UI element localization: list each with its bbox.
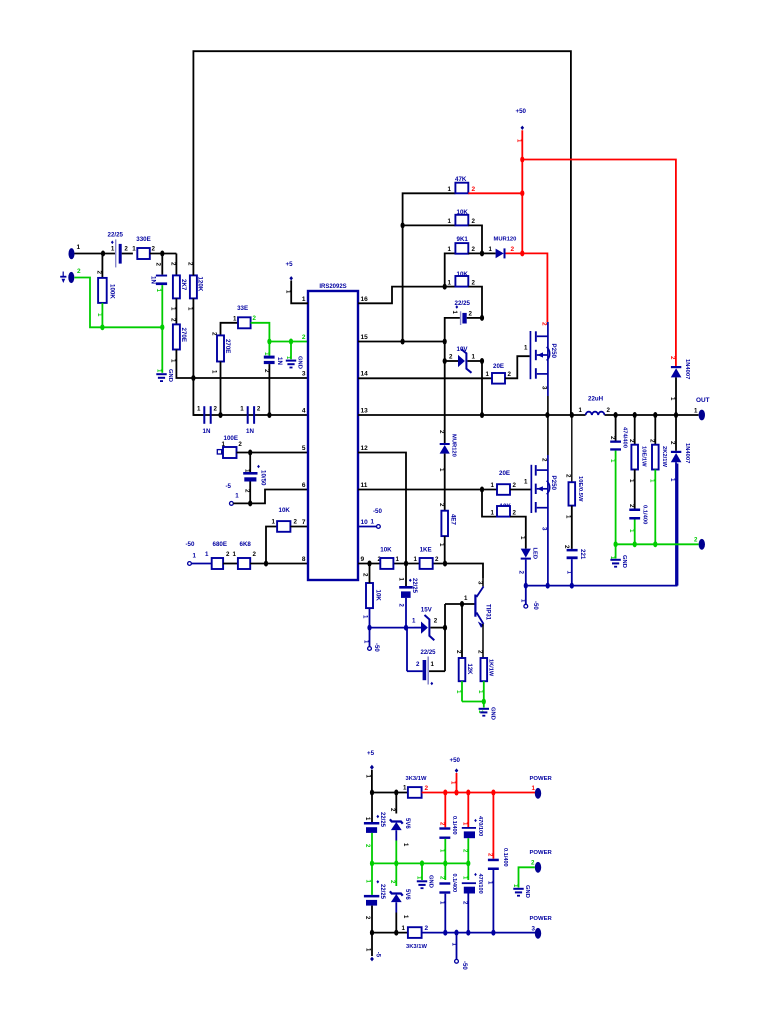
svg-text:2: 2	[294, 519, 298, 526]
capacitor 1N b	[240, 406, 261, 436]
svg-text:2: 2	[96, 271, 103, 275]
svg-text:5V6: 5V6	[404, 889, 410, 900]
svg-text:16: 16	[361, 296, 369, 303]
svg-text:10: 10	[361, 519, 369, 526]
resistor 270E pin2	[211, 332, 232, 415]
transistor P250 low-side	[524, 415, 557, 586]
terminal +50 top	[516, 108, 527, 160]
wire pin8 to 10K pin7	[266, 527, 277, 564]
inductor 22uH	[579, 396, 611, 416]
terminal -5 psu	[365, 933, 381, 962]
svg-text:2: 2	[238, 441, 242, 448]
node psu -50 rail e2	[454, 930, 458, 936]
node -50 local b	[404, 625, 408, 631]
svg-text:2: 2	[513, 510, 517, 517]
svg-text:2: 2	[152, 246, 156, 253]
svg-text:2: 2	[170, 318, 177, 322]
svg-text:GND: GND	[621, 555, 627, 568]
svg-text:2: 2	[669, 441, 676, 445]
connector IN pin 1	[69, 244, 81, 259]
svg-text:P250: P250	[550, 344, 557, 359]
resistor 3K3/1W upper	[403, 776, 535, 798]
svg-text:33E: 33E	[237, 305, 248, 312]
node pin4 a	[218, 412, 222, 418]
wire feedback loop from 120K to switch node	[193, 51, 571, 415]
svg-text:2: 2	[518, 571, 525, 575]
svg-text:2: 2	[513, 482, 517, 489]
terminal -50 below 10K	[363, 628, 379, 653]
terminal -50 bias	[186, 541, 212, 565]
svg-text:1: 1	[669, 397, 676, 401]
wire COM rail down to pin4 row	[193, 378, 203, 415]
wire pin16 net	[358, 287, 445, 304]
wire vbe gnd rail	[462, 701, 484, 703]
svg-text:10E/0.5W: 10E/0.5W	[577, 476, 583, 502]
svg-text:1N: 1N	[203, 428, 211, 435]
wire pin9 row	[358, 564, 483, 579]
svg-text:1N: 1N	[276, 357, 283, 365]
resistor 10E/0.5W snubber	[565, 415, 583, 549]
svg-text:2: 2	[508, 371, 512, 378]
resistor 10K ladder a	[403, 209, 482, 253]
connector POWER pin3	[530, 916, 553, 939]
resistor 10E/1W zobel	[628, 415, 647, 509]
resistor 4E7	[438, 503, 457, 564]
wire psu ground rail	[372, 862, 468, 864]
svg-text:2: 2	[124, 246, 128, 253]
node +50 MUR120	[520, 250, 524, 256]
svg-text:2: 2	[425, 925, 429, 932]
svg-text:3: 3	[302, 371, 306, 378]
node switch/out a	[480, 412, 484, 418]
diode MUR120 vcc bootstrap charge	[438, 430, 456, 511]
node zener/vs vertical a	[443, 358, 447, 364]
svg-text:2: 2	[257, 406, 261, 413]
node psu -50 rail e1	[443, 930, 447, 936]
svg-text:2: 2	[416, 661, 420, 668]
svg-text:2: 2	[302, 334, 306, 341]
node psu -50 rail e3	[466, 930, 470, 936]
terminal +50 psu	[450, 757, 461, 793]
capacitor 22/25 vbe	[407, 628, 445, 686]
capacitor 22/25 psu lower	[364, 863, 385, 932]
node vbe gnd	[482, 699, 486, 705]
terminal -5	[226, 483, 251, 505]
svg-text:1N4007: 1N4007	[684, 443, 690, 463]
svg-text:1: 1	[524, 345, 528, 352]
node bootstrap cap right	[480, 315, 484, 321]
capacitor 0.1/400 psu upper	[439, 793, 458, 864]
capacitor 22/25 vcc	[398, 564, 417, 628]
svg-text:1: 1	[669, 478, 676, 482]
resistor 1KE	[414, 547, 440, 569]
node -5 junction	[248, 500, 252, 506]
svg-text:1: 1	[155, 289, 162, 293]
capacitor 1N a	[197, 406, 218, 436]
wire to GND	[161, 327, 163, 373]
svg-text:1: 1	[486, 371, 490, 378]
diode LED	[518, 536, 538, 586]
svg-text:2: 2	[438, 503, 445, 507]
svg-text:2: 2	[472, 218, 476, 225]
svg-text:4E7: 4E7	[450, 514, 457, 526]
svg-text:7: 7	[302, 519, 306, 526]
svg-text:1: 1	[362, 615, 369, 619]
svg-text:2: 2	[455, 650, 462, 654]
svg-text:680E: 680E	[213, 541, 227, 548]
svg-text:2: 2	[214, 406, 218, 413]
capacitor 22/25 bootstrap	[445, 300, 482, 444]
svg-text:GND: GND	[167, 369, 173, 382]
svg-text:20E: 20E	[493, 363, 504, 370]
terminal -50 below LED	[520, 586, 539, 611]
svg-text:2: 2	[435, 556, 439, 563]
capacitor 0.1/400 zobel	[628, 504, 648, 544]
svg-text:270E: 270E	[180, 328, 187, 342]
svg-text:1: 1	[448, 280, 452, 287]
svg-text:221: 221	[579, 549, 586, 560]
svg-text:2: 2	[628, 439, 635, 443]
transistor P250 high-side	[524, 322, 557, 415]
node pin15 a	[401, 339, 405, 345]
ground GND input	[156, 369, 174, 382]
svg-text:270E: 270E	[224, 339, 231, 353]
svg-text:GND: GND	[297, 356, 303, 369]
resistor 2K2/1W bleeder	[648, 415, 667, 544]
svg-text:-50: -50	[373, 508, 383, 515]
node out gnd b	[633, 541, 637, 547]
svg-text:2: 2	[541, 322, 548, 326]
capacitor 221 snubber	[563, 545, 586, 586]
diode 1N4007 upper clamp	[669, 356, 690, 415]
node psu +50 rail b2	[454, 790, 458, 796]
svg-text:1: 1	[628, 529, 635, 533]
svg-text:1: 1	[205, 551, 209, 558]
svg-text:1: 1	[132, 246, 136, 253]
svg-text:GND: GND	[490, 707, 496, 720]
ground GND tip31	[477, 702, 496, 720]
svg-text:22/25: 22/25	[421, 650, 437, 656]
node pin9 c	[443, 561, 447, 567]
svg-text:330E: 330E	[136, 236, 150, 243]
zener 5V6 upper	[389, 793, 410, 864]
svg-text:22/25: 22/25	[379, 812, 385, 828]
svg-text:22uH: 22uH	[588, 396, 604, 403]
svg-text:1: 1	[565, 515, 572, 519]
svg-text:2: 2	[541, 458, 548, 462]
node out gnd c	[653, 541, 657, 547]
wire pin2 green net	[269, 341, 308, 343]
svg-text:22/25: 22/25	[108, 232, 124, 239]
svg-text:12K: 12K	[466, 664, 472, 676]
svg-text:1: 1	[455, 690, 462, 694]
svg-text:+50: +50	[516, 108, 527, 115]
svg-text:1: 1	[448, 218, 452, 225]
capacitor 22/25 input coupling	[108, 232, 133, 268]
svg-text:2: 2	[565, 474, 572, 478]
node green input gnd 1	[100, 324, 104, 330]
resistor 10K pin9	[378, 547, 400, 569]
svg-text:3: 3	[532, 926, 536, 933]
connector OUT pin1	[694, 397, 710, 420]
chassis ground mark at input pin 2	[60, 272, 66, 284]
svg-text:6K8: 6K8	[240, 541, 252, 548]
node psu +50 rail b3	[466, 790, 470, 796]
node switch/out e	[633, 412, 637, 418]
svg-text:1: 1	[396, 556, 400, 563]
svg-text:MUR120: MUR120	[494, 237, 517, 243]
node pin9 b	[404, 561, 408, 567]
svg-text:1: 1	[412, 618, 416, 625]
resistor 3K3/1W lower	[402, 925, 536, 950]
svg-text:2: 2	[155, 263, 162, 267]
resistor 120K feedback	[187, 262, 204, 378]
svg-text:0.1/400: 0.1/400	[502, 848, 508, 867]
svg-text:1: 1	[532, 785, 536, 792]
wire psu -50 bottom rail black	[372, 932, 408, 934]
diode MUR120 bootstrap	[482, 237, 523, 259]
wire VS chain down to switch node	[481, 361, 483, 415]
svg-text:-5: -5	[226, 483, 232, 490]
svg-text:2: 2	[449, 354, 453, 361]
node psu a2	[394, 790, 398, 796]
terminal -50 psu	[450, 933, 467, 971]
svg-text:1: 1	[233, 551, 237, 558]
svg-text:1K/1W: 1K/1W	[487, 659, 493, 677]
node base 12K junction	[460, 601, 464, 607]
svg-text:-5: -5	[375, 952, 381, 958]
node 9K1 output	[480, 250, 484, 256]
connector OUT pin2	[694, 537, 705, 550]
svg-text:9: 9	[361, 556, 365, 563]
wire output ground rail	[616, 543, 699, 545]
node switch/out b	[545, 412, 549, 418]
node +50 branch	[520, 157, 524, 163]
svg-text:1: 1	[233, 316, 237, 323]
svg-text:+5: +5	[286, 261, 294, 268]
svg-text:10E/1W: 10E/1W	[641, 446, 647, 467]
ground GND psu power2	[512, 884, 530, 898]
svg-text:470/100: 470/100	[477, 874, 483, 894]
node -50 rail snubber	[570, 583, 574, 589]
svg-text:2: 2	[694, 537, 698, 544]
wire base net vertical	[445, 604, 475, 671]
svg-text:2: 2	[469, 311, 473, 318]
svg-text:2: 2	[187, 262, 194, 266]
svg-text:22/25: 22/25	[411, 578, 417, 594]
svg-text:POWER: POWER	[530, 850, 553, 856]
wire input pin1 to coupling cap	[74, 253, 115, 255]
svg-text:0.1/400: 0.1/400	[642, 505, 648, 524]
connector POWER pin2	[519, 850, 553, 888]
svg-text:2K7: 2K7	[180, 279, 187, 291]
svg-text:6: 6	[302, 482, 306, 489]
wire pin15 net	[358, 341, 445, 343]
node psu +50 rail b1	[443, 790, 447, 796]
node pin8 junction	[264, 561, 268, 567]
terminal -50 pin10	[358, 508, 383, 528]
wire pin12 to vcc node	[358, 453, 406, 564]
svg-text:-50: -50	[373, 643, 379, 652]
svg-text:11: 11	[361, 482, 368, 489]
zener 10V	[445, 346, 482, 373]
svg-text:1: 1	[302, 296, 306, 303]
capacitor 22/25 psu upper	[364, 793, 385, 864]
svg-text:2: 2	[253, 315, 257, 322]
capacitor 1N input filter	[149, 254, 167, 328]
svg-text:2: 2	[226, 551, 230, 558]
wire -50 rail	[526, 464, 678, 586]
svg-text:470/100: 470/100	[477, 816, 483, 836]
svg-text:1: 1	[263, 352, 270, 356]
wire pin4 row	[193, 414, 308, 416]
svg-text:1N4007: 1N4007	[684, 359, 690, 379]
svg-text:1: 1	[464, 595, 468, 602]
terminal +5 at pin1	[285, 261, 309, 303]
node 330E output	[160, 251, 164, 257]
svg-text:9K1: 9K1	[457, 236, 469, 243]
zener 5V6 lower	[389, 863, 410, 932]
node +50 47K	[520, 190, 524, 196]
svg-text:-50: -50	[186, 541, 196, 548]
svg-text:3K3/1W: 3K3/1W	[406, 776, 427, 782]
svg-text:2: 2	[563, 545, 570, 549]
capacitor 474/400 output zobel	[609, 415, 628, 544]
svg-text:0.1/400: 0.1/400	[451, 874, 457, 893]
svg-text:1: 1	[472, 354, 476, 361]
svg-text:1: 1	[448, 246, 452, 253]
svg-text:2: 2	[170, 262, 177, 266]
resistor 10K vcc lower	[362, 564, 382, 628]
svg-text:2: 2	[253, 551, 257, 558]
IC pin numbers left	[302, 296, 306, 563]
svg-text:1: 1	[489, 246, 493, 253]
svg-text:1: 1	[193, 553, 197, 560]
svg-text:2: 2	[648, 439, 655, 443]
svg-text:1: 1	[694, 408, 698, 415]
svg-text:1N: 1N	[246, 428, 254, 435]
wire -50 local net	[370, 627, 416, 629]
svg-text:1: 1	[648, 479, 655, 483]
node switch/out f	[653, 412, 657, 418]
svg-text:+50: +50	[450, 757, 461, 764]
svg-text:1: 1	[77, 244, 81, 251]
svg-text:1: 1	[491, 482, 495, 489]
capacitor 10/50	[243, 453, 266, 504]
svg-text:+5: +5	[367, 750, 375, 757]
svg-text:474/400: 474/400	[622, 427, 628, 448]
svg-text:3: 3	[541, 386, 548, 390]
svg-text:5: 5	[302, 445, 306, 452]
resistor 2K7	[170, 254, 187, 325]
transistor TIP31	[464, 579, 491, 658]
wire +50 to output diode	[522, 160, 676, 367]
wire psu +5 rail	[372, 792, 408, 794]
capacitor 470/100 psu upper	[462, 793, 483, 864]
node pin2 net b	[289, 339, 293, 345]
svg-text:100K: 100K	[109, 284, 116, 299]
svg-text:0.1/400: 0.1/400	[451, 816, 457, 835]
resistor 10K low gate pulldown	[482, 490, 526, 549]
node switch/out c	[570, 412, 574, 418]
svg-text:2K2/1W: 2K2/1W	[661, 446, 667, 467]
node psu a1	[370, 790, 374, 796]
wire pin11 to gate resistor low	[358, 489, 497, 491]
svg-text:2: 2	[531, 860, 535, 867]
svg-text:2: 2	[77, 268, 81, 275]
resistor 270E input divider	[170, 324, 309, 378]
resistor 6K8	[233, 541, 309, 569]
wire input ground net green	[74, 278, 162, 328]
capacitor 470/100 psu lower	[462, 863, 483, 932]
svg-text:13: 13	[361, 408, 369, 415]
svg-text:2: 2	[628, 504, 635, 508]
svg-text:1: 1	[579, 407, 583, 414]
node out gnd a	[614, 541, 618, 547]
node psu +50 rail b4	[491, 790, 495, 796]
svg-text:1: 1	[448, 186, 452, 193]
svg-text:MUR120: MUR120	[450, 434, 456, 457]
svg-text:15V: 15V	[421, 607, 433, 614]
svg-text:2: 2	[477, 650, 484, 654]
svg-text:1: 1	[371, 519, 375, 526]
resistor 33E	[221, 305, 270, 342]
svg-text:1: 1	[170, 359, 177, 363]
svg-text:POWER: POWER	[530, 916, 553, 922]
svg-text:1: 1	[431, 661, 435, 668]
svg-text:IRS2092S: IRS2092S	[319, 284, 346, 290]
capacitor 0.1/400 psu lower	[439, 863, 458, 932]
svg-text:20E: 20E	[499, 470, 510, 477]
svg-text:3: 3	[541, 527, 548, 531]
node pin11 junction	[480, 487, 484, 493]
svg-text:22/25: 22/25	[379, 884, 385, 900]
svg-text:GND: GND	[428, 875, 434, 888]
svg-text:1: 1	[524, 479, 528, 486]
svg-text:1: 1	[519, 536, 526, 540]
svg-text:GND: GND	[524, 885, 530, 898]
wire switch node pin13	[358, 414, 699, 416]
resistor 20E high gate	[486, 356, 530, 383]
svg-text:LED: LED	[531, 548, 537, 560]
resistor 47K	[403, 176, 523, 342]
svg-text:12: 12	[361, 445, 369, 452]
node psu d2	[394, 930, 398, 936]
node zener/vs vertical b	[480, 358, 484, 364]
svg-text:120K: 120K	[197, 277, 204, 292]
resistor 680E	[205, 541, 238, 569]
resistor 10K pin7	[272, 507, 309, 532]
node psu gnd rail c3	[420, 860, 424, 866]
resistor 1K/1W	[477, 658, 494, 702]
svg-text:3K3/1W: 3K3/1W	[406, 944, 427, 950]
svg-text:1: 1	[197, 406, 201, 413]
wire pin14 to gate resistor	[358, 377, 492, 379]
node 15V zener base net	[443, 625, 447, 631]
svg-text:1: 1	[403, 785, 407, 792]
svg-text:1: 1	[211, 370, 218, 374]
svg-text:2: 2	[438, 430, 445, 434]
node psu gnd rail c5	[466, 860, 470, 866]
svg-text:1: 1	[235, 493, 239, 500]
node -50 rail LED	[524, 583, 528, 589]
resistor 12K	[455, 604, 472, 702]
node COM rail / 120K / pin4 branch	[191, 375, 195, 381]
svg-text:1: 1	[272, 519, 276, 526]
svg-text:POWER: POWER	[530, 776, 553, 782]
svg-text:1: 1	[414, 556, 418, 563]
connector IN pin 2	[68, 268, 81, 283]
